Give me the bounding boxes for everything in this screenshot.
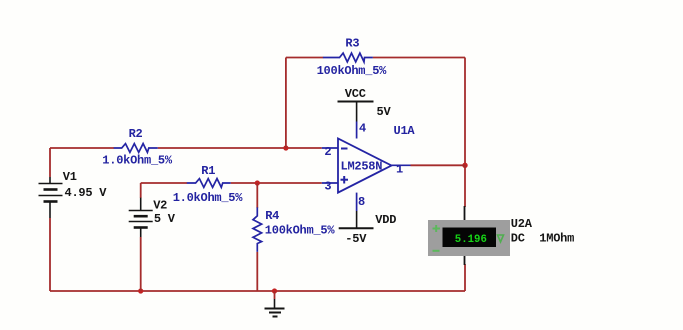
wire: V2 top to R1 row — [140, 183, 142, 198]
VDD power symbol — [339, 211, 374, 228]
multimeter plus terminal mark — [433, 225, 441, 232]
svg-text:R3: R3 — [345, 37, 359, 51]
wire: top row right of R3 — [373, 57, 465, 59]
svg-text:V1: V1 — [63, 170, 77, 184]
wire: ground stub — [274, 291, 276, 299]
svg-text:8: 8 — [358, 195, 365, 209]
svg-text:LM258N: LM258N — [341, 159, 383, 173]
svg-text:1.0kOhm_5%: 1.0kOhm_5% — [102, 154, 173, 168]
op-amp inverting input mark — [341, 148, 348, 150]
resistor R1 — [187, 179, 231, 188]
wire: left vertical from R2 row to V1 — [49, 148, 51, 177]
svg-text:-5V: -5V — [345, 232, 367, 246]
svg-text:U2A: U2A — [511, 217, 533, 231]
multimeter minus terminal mark — [433, 250, 440, 252]
node junction on R2 row (feedback tap) — [283, 145, 288, 150]
ground — [265, 299, 285, 317]
svg-text:R1: R1 — [201, 164, 215, 178]
wire: bottom ground row — [50, 290, 465, 292]
node junction ground at bottom row — [272, 288, 277, 293]
node junction V2 at bottom row — [138, 288, 143, 293]
svg-text:5.196: 5.196 — [455, 234, 487, 246]
wire: pin 1 output stub — [392, 164, 411, 166]
svg-text:5V: 5V — [377, 105, 392, 119]
wire: R2 row right segment to op-amp pin 2 — [158, 147, 322, 149]
svg-text:R4: R4 — [265, 209, 279, 223]
wire: output to meter node — [411, 164, 466, 166]
wire: pin 3 stub — [322, 182, 338, 184]
wire: output node down to multimeter — [464, 165, 466, 207]
resistor R3 — [323, 53, 373, 62]
resistor R4 — [253, 207, 262, 252]
multimeter U2A body — [428, 220, 510, 256]
wire: pin 4 stub — [356, 122, 358, 139]
svg-text:4.95 V: 4.95 V — [65, 186, 108, 200]
svg-text:VDD: VDD — [375, 213, 396, 227]
node junction R4 at R1 row — [255, 180, 260, 185]
resistor R2 — [114, 144, 158, 153]
wire: R4 top segment — [256, 183, 258, 208]
wire: right vertical down to output node — [464, 58, 466, 166]
svg-text:U1A: U1A — [394, 124, 416, 138]
svg-text:1.0kOhm_5%: 1.0kOhm_5% — [173, 191, 244, 205]
svg-text:4: 4 — [359, 122, 366, 136]
op-amp U1A — [338, 139, 392, 193]
svg-text:1: 1 — [396, 163, 403, 177]
wire: pin 2 stub — [322, 147, 338, 149]
node output junction — [462, 163, 467, 168]
svg-text:100kOhm_5%: 100kOhm_5% — [265, 224, 336, 238]
svg-text:1MOhm: 1MOhm — [539, 232, 574, 246]
svg-text:V2: V2 — [153, 199, 167, 213]
svg-text:5 V: 5 V — [154, 212, 176, 226]
svg-text:R2: R2 — [129, 127, 143, 141]
source V1 battery — [39, 177, 63, 218]
wire: V2 bottom to bottom row — [140, 237, 142, 291]
wire: V1 bottom to bottom row — [49, 218, 51, 291]
wire: R2 row left segment from V1 branch — [50, 147, 114, 149]
wire: pin 8 stub — [356, 193, 358, 211]
source V2 battery — [129, 198, 153, 237]
multimeter display — [443, 228, 497, 248]
wire: vertical feedback riser — [285, 58, 287, 149]
multimeter mode arrow — [498, 235, 504, 242]
wire: R1 row left segment — [141, 182, 187, 184]
wire: R4 bottom to bottom row — [256, 252, 258, 291]
VCC power symbol — [338, 102, 374, 122]
svg-text:3: 3 — [324, 179, 331, 193]
op-amp non-inverting input mark — [341, 176, 349, 184]
wire: R1 row right segment to op-amp pin 3 — [231, 182, 322, 184]
svg-text:2: 2 — [324, 145, 331, 159]
svg-text:100kOhm_5%: 100kOhm_5% — [317, 64, 388, 78]
wire: multimeter top pin — [464, 206, 466, 220]
wire: multimeter bottom pin — [464, 256, 466, 265]
wire: top row left of R3 — [286, 57, 323, 59]
svg-text:DC: DC — [511, 232, 525, 246]
wire: multimeter bottom to bottom row — [464, 264, 466, 291]
svg-text:VCC: VCC — [345, 87, 366, 101]
